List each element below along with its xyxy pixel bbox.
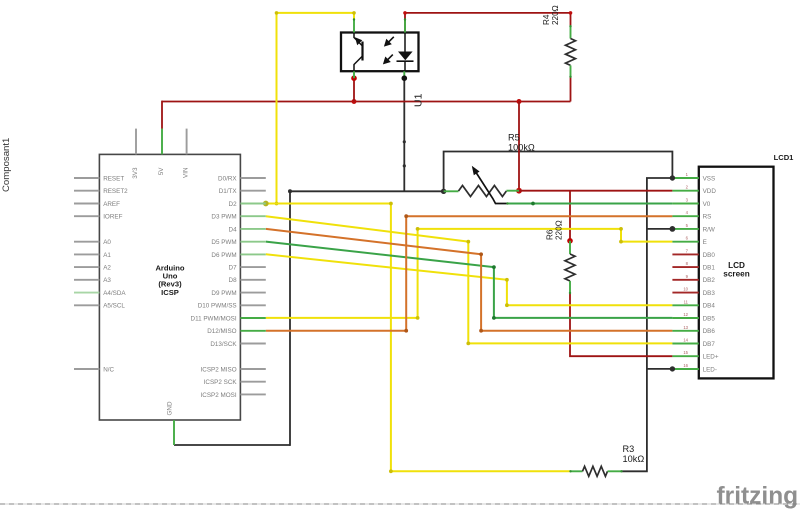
node: VDD junction (519,190.7): [516, 188, 522, 194]
wire: orange D12 net up to LCD RS: [266, 216, 673, 331]
pin: LCD DB3 leg (pin 10): [672, 292, 698, 294]
node: yellow bendpoints D11 net: [416, 227, 623, 320]
pin: Arduino N/C leg: [74, 368, 99, 370]
svg-text:A4/SDA: A4/SDA: [103, 290, 126, 297]
wire: bottom canvas boundary dashed line: [0, 503, 800, 505]
pin: Arduino RESET2 leg: [74, 190, 99, 192]
svg-text:A5/SCL: A5/SCL: [103, 303, 125, 310]
pin: U1 pin4 bottom-right leg: [403, 71, 405, 78]
svg-text:DB2: DB2: [703, 277, 716, 284]
pin: Arduino ICSP2 MISO leg: [240, 368, 265, 370]
pin: Arduino D6 PWM leg: [240, 253, 265, 255]
node: yellow bendpoints D6 net: [505, 278, 509, 307]
node: bendpoints on U1 emitter wire: [403, 140, 406, 167]
pin: Arduino A4/SDA leg: [74, 292, 99, 294]
svg-text:screen: screen: [723, 269, 749, 278]
pin: Arduino D10 PWM/SS leg: [240, 304, 265, 306]
transistor/LED optocoupler U1 box: [341, 33, 419, 72]
pin: Arduino A5/SCL leg: [74, 304, 99, 306]
wire: black ground net GND->corner: [174, 191, 290, 446]
wire: R6 top feed from VDD line: [569, 191, 571, 241]
node: orange bendpoints D4 net: [479, 252, 483, 332]
pin: Arduino ICSP2 SCK leg: [240, 381, 265, 383]
wire: VDD line to LCD pin2: [519, 190, 672, 192]
wire: green net R5 wiper to LCD V0: [507, 203, 672, 205]
pin: Arduino GND leg (connected): [173, 420, 175, 445]
svg-text:ICSP: ICSP: [161, 288, 179, 297]
wire: R6 bottom to LCD LED+: [570, 294, 672, 357]
svg-text:R/W: R/W: [703, 226, 715, 233]
pin: U1 pin3 bottom-left leg: [353, 71, 355, 78]
svg-text:D3 PWM: D3 PWM: [211, 214, 236, 221]
svg-text:V0: V0: [703, 201, 711, 208]
pin: Arduino D3 PWM leg: [240, 215, 265, 217]
pin: Arduino D9 PWM leg: [240, 292, 265, 294]
svg-text:N/C: N/C: [103, 366, 114, 373]
node: junction at LCD LED- pin: [670, 366, 675, 371]
svg-text:3V3: 3V3: [132, 167, 139, 179]
svg-text:fritzing: fritzing: [717, 483, 799, 510]
pin: Arduino D4 leg: [240, 228, 265, 230]
svg-text:ICSP2 MOSI: ICSP2 MOSI: [201, 392, 237, 399]
pin: LCD V0 leg (pin 3): [672, 203, 698, 205]
pin: Arduino D12/MISO leg: [240, 330, 265, 332]
svg-text:D6 PWM: D6 PWM: [211, 252, 236, 259]
op-amp U? : Arduino Uno (Rev3) ICSP box: [99, 154, 240, 420]
svg-text:D2: D2: [229, 201, 238, 208]
svg-text:R5: R5: [508, 133, 520, 143]
svg-text:ICSP2 SCK: ICSP2 SCK: [204, 379, 238, 386]
svg-text:IOREF: IOREF: [103, 214, 122, 221]
svg-text:RESET2: RESET2: [103, 188, 128, 195]
pin: Arduino D2 leg: [240, 203, 265, 205]
pin: Arduino D1/TX leg: [240, 190, 265, 192]
pin: Arduino ICSP2 MOSI leg: [240, 393, 265, 395]
svg-text:LED-: LED-: [703, 366, 717, 373]
pin: Arduino RESET leg: [74, 177, 99, 179]
node: ground bendpoint (290,191.3): [288, 189, 292, 193]
pin: LCD DB4 leg (pin 11): [672, 304, 698, 306]
label: LCD screen part name: [723, 261, 749, 278]
resistor R5 potentiometer 100k (horizontal with wiper): [444, 166, 519, 204]
wire: optocoupler U1 pin4 (emitter) down to ground net: [403, 78, 405, 191]
svg-text:RS: RS: [703, 214, 712, 221]
pin: Arduino 5V leg (connected): [161, 129, 163, 155]
pin: U1 pin2 top-right leg: [404, 19, 406, 33]
node: black pin dot U1 pin4: [402, 75, 408, 81]
wire: branch to LCD LED-: [647, 368, 673, 370]
svg-text:RESET: RESET: [103, 175, 124, 182]
wire: yellow D3 net diagonal to LCD DB7: [266, 216, 673, 343]
wire: light arrows inside U1: [383, 37, 394, 65]
pin: LCD DB0 leg (pin 7): [672, 253, 698, 255]
node: red junction feeding VDD (519,101.5): [517, 99, 522, 104]
node: green bendpoint on V0 wire (533,203.5): [531, 202, 535, 206]
node: red pin dot U1 pin3 (354,78.2): [351, 75, 357, 81]
pin: LCD E leg (pin 6): [672, 241, 698, 243]
svg-text:DB6: DB6: [703, 328, 716, 335]
resistor R3 10k ohm (horizontal): [570, 466, 622, 476]
svg-text:10: 10: [683, 287, 688, 292]
svg-text:DB3: DB3: [703, 290, 716, 297]
svg-text:A0: A0: [103, 239, 111, 246]
node: olive junction dot at D2 pin: [263, 201, 269, 207]
wire: black ground horizontal to R5 pin1: [290, 190, 444, 192]
svg-text:ICSP2 MISO: ICSP2 MISO: [201, 366, 237, 373]
wire: yellow D11 net to LCD E: [266, 229, 673, 318]
resistor R4 220 ohm (vertical): [566, 26, 576, 78]
wire: U1 pin3 (left bottom) to rail: [353, 78, 355, 101]
pin: Arduino IOREF leg: [74, 215, 99, 217]
pin: Arduino VIN leg: [186, 129, 188, 155]
node: junction at R5 pin1 (443.6,191.3): [441, 189, 446, 194]
wire: black from VSS junction left/down to R/W, LED-, R3: [622, 178, 672, 471]
node: red dot at R6 pin1 (570,240.8): [567, 238, 573, 244]
node: junction at LCD VSS pin: [670, 175, 675, 180]
wire: R4 bottom lead to rail: [570, 78, 572, 102]
IC LCD1: LCD screen box: [699, 167, 774, 379]
pin: Arduino A0 leg: [74, 241, 99, 243]
pin: Arduino 3V3 leg: [135, 129, 137, 155]
svg-text:VDD: VDD: [703, 188, 717, 195]
transistor Q inside U1 (phototransistor): [354, 33, 363, 72]
node: red junction at U1 pin3 column (354,101.5): [352, 99, 357, 104]
node: red bendpoints top rail: [403, 11, 572, 15]
svg-text:Composant1: Composant1: [1, 138, 12, 192]
pin: LCD DB6 leg (pin 13): [672, 330, 698, 332]
diode LED inside U1: [397, 33, 414, 72]
svg-text:A3: A3: [103, 277, 111, 284]
node: yellow bendpoints D3 net: [466, 240, 470, 346]
wire: 5V red riser from Arduino 5V pin: [161, 101, 163, 129]
wire: yellow net U1 pin1 to Arduino D2 (top loop): [277, 13, 355, 204]
svg-text:A1: A1: [103, 252, 111, 259]
svg-text:16: 16: [683, 363, 688, 368]
pin: Arduino A1 leg: [74, 253, 99, 255]
svg-text:VSS: VSS: [703, 175, 716, 182]
pin: LCD LED+ leg (pin 15): [672, 355, 698, 357]
label: Arduino part name: [155, 264, 184, 297]
wire: top red rail y=12.9 from U1 pin2 to R4 top: [405, 13, 571, 33]
label: R3 10k ohm value: [623, 444, 645, 464]
svg-text:D8: D8: [229, 277, 238, 284]
svg-text:LED+: LED+: [703, 354, 719, 361]
wire: yellow D2 net to R3: [266, 204, 570, 472]
pin: Arduino D13/SCK leg: [240, 343, 265, 345]
svg-text:GND: GND: [167, 401, 174, 415]
svg-text:5V: 5V: [158, 167, 165, 176]
svg-text:E: E: [703, 239, 707, 246]
svg-text:13: 13: [683, 325, 688, 330]
pin: LCD DB7 leg (pin 14): [672, 343, 698, 345]
pin: Arduino AREF leg: [74, 203, 99, 205]
pin: Arduino D7 leg: [240, 266, 265, 268]
pin: U1 pin1 top-left leg: [353, 19, 355, 33]
svg-text:D4: D4: [229, 226, 238, 233]
pin: Arduino D0/RX leg: [240, 177, 265, 179]
node: yellow bendpoints D2 net: [389, 202, 393, 474]
pin: Arduino A3 leg: [74, 279, 99, 281]
svg-text:12: 12: [683, 312, 688, 317]
pin: LCD R/W leg (pin 5): [672, 228, 698, 230]
node: orange bendpoints D12 net: [404, 214, 408, 332]
svg-text:15: 15: [683, 350, 688, 355]
wire: orange D4 net diagonal to LCD DB6: [266, 229, 673, 331]
svg-text:D10 PWM/SS: D10 PWM/SS: [198, 303, 237, 310]
svg-text:DB7: DB7: [703, 341, 716, 348]
svg-text:AREF: AREF: [103, 201, 120, 208]
pin: LCD VSS leg (pin 1): [672, 177, 698, 179]
svg-text:100kΩ: 100kΩ: [508, 142, 535, 152]
svg-text:DB4: DB4: [703, 303, 716, 310]
svg-text:14: 14: [683, 338, 688, 343]
svg-text:D0/RX: D0/RX: [218, 175, 237, 182]
pin: LCD LED- leg (pin 16): [672, 368, 698, 370]
wire: red power rail y=101.5: [162, 101, 571, 103]
pin: Arduino D11 PWM/MOSI leg: [240, 317, 265, 319]
svg-text:D11 PWM/MOSI: D11 PWM/MOSI: [191, 315, 237, 322]
pin: LCD DB2 leg (pin 9): [672, 279, 698, 281]
svg-text:D12/MISO: D12/MISO: [207, 328, 236, 335]
pin: LCD VDD leg (pin 2): [672, 190, 698, 192]
wire: green D5 net diagonal to LCD DB5: [266, 242, 673, 318]
pin: Arduino D8 leg: [240, 279, 265, 281]
svg-text:11: 11: [684, 299, 689, 304]
node: green bendpoints D5 net: [492, 265, 496, 320]
svg-text:DB5: DB5: [703, 315, 716, 322]
node: tiny pin-end dots on component legs: [353, 18, 623, 472]
svg-text:U1: U1: [413, 93, 425, 107]
wire: branch to LCD R/W: [647, 228, 673, 230]
pin: LCD DB1 leg (pin 8): [672, 266, 698, 268]
svg-text:D7: D7: [229, 265, 238, 272]
wire: black net R5 pin1 up and across to LCD VSS: [444, 152, 673, 192]
svg-text:DB1: DB1: [703, 265, 716, 272]
svg-text:10kΩ: 10kΩ: [623, 454, 645, 464]
pin: LCD DB5 leg (pin 12): [672, 317, 698, 319]
pin: Arduino D5 PWM leg: [240, 241, 265, 243]
wire: yellow D6 net diagonal to LCD DB4: [266, 254, 673, 305]
svg-text:D5 PWM: D5 PWM: [211, 239, 236, 246]
svg-text:LCD1: LCD1: [774, 153, 795, 162]
pin: Arduino A2 leg: [74, 266, 99, 268]
svg-text:D1/TX: D1/TX: [219, 188, 238, 195]
svg-text:DB0: DB0: [703, 252, 716, 259]
svg-text:D9 PWM: D9 PWM: [211, 290, 236, 297]
pin: LCD RS leg (pin 4): [672, 215, 698, 217]
svg-text:A2: A2: [103, 265, 111, 272]
svg-text:D13/SCK: D13/SCK: [210, 341, 237, 348]
svg-text:VIN: VIN: [183, 167, 190, 178]
wire: VDD drop x=519: [518, 102, 520, 191]
resistor R6 220 ohm (vertical): [565, 241, 575, 294]
node: junction at LCD R/W pin: [670, 226, 676, 232]
svg-text:R3: R3: [623, 444, 635, 454]
label: R5 100k ohm value: [508, 133, 535, 153]
node: yellow bendpoints top loop: [275, 11, 356, 205]
